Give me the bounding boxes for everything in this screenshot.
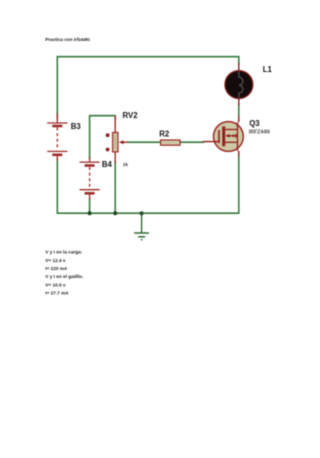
svg-text:1k: 1k [123,162,129,168]
svg-text:I= 220 mA: I= 220 mA [45,266,68,271]
svg-text:V= 10.5 v: V= 10.5 v [45,282,66,287]
svg-text:V y I en la carga:: V y I en la carga: [45,249,82,254]
svg-text:B3: B3 [71,122,82,131]
svg-text:B4: B4 [102,160,113,169]
svg-text:L1: L1 [263,65,273,74]
svg-text:Practica con irfz44N:: Practica con irfz44N: [45,37,91,42]
svg-text:RV2: RV2 [123,111,139,120]
svg-text:Q3: Q3 [249,119,260,128]
svg-text:R2: R2 [159,129,170,138]
svg-text:V= 12.4 v: V= 12.4 v [45,258,66,263]
svg-text:I= 27.7 mA: I= 27.7 mA [45,290,69,295]
svg-text:IRFZ44N: IRFZ44N [249,129,270,135]
svg-text:V y I en el gatillo.: V y I en el gatillo. [45,274,83,279]
